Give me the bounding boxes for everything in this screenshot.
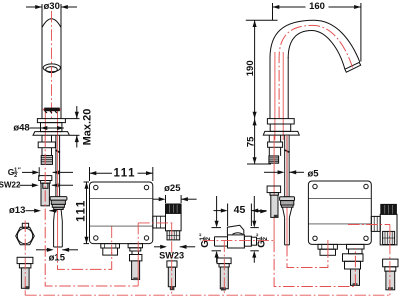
svg-text:ø30: ø30 <box>44 1 60 12</box>
svg-text:45: 45 <box>234 204 246 216</box>
svg-text:111: 111 <box>113 168 136 180</box>
svg-text:2: 2 <box>205 237 212 241</box>
svg-text:111: 111 <box>76 199 88 222</box>
svg-text:″: ″ <box>18 168 21 174</box>
svg-text:ø25: ø25 <box>164 183 181 194</box>
svg-text:2: 2 <box>14 173 17 179</box>
svg-text:SW22: SW22 <box>0 180 21 189</box>
svg-text:160: 160 <box>309 1 325 12</box>
svg-text:75: 75 <box>245 136 256 147</box>
svg-text:2: 2 <box>262 237 269 241</box>
svg-text:190: 190 <box>245 60 256 76</box>
svg-text:ø48: ø48 <box>13 123 29 134</box>
svg-text:Max.20: Max.20 <box>82 109 94 146</box>
svg-text:ø5: ø5 <box>307 168 319 179</box>
svg-text:ø13: ø13 <box>9 205 25 216</box>
